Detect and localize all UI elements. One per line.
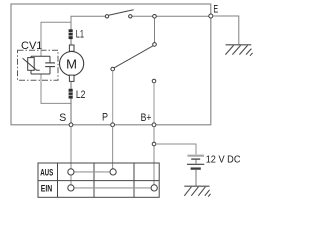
terminal B+ xyxy=(152,123,156,127)
node on top rail xyxy=(153,14,157,18)
battery G1 cell link xyxy=(195,160,197,164)
choke L2 xyxy=(68,89,73,99)
wire: motor branch vertical (L1 to motor) xyxy=(70,39,72,45)
svg-text:B+: B+ xyxy=(141,112,152,124)
switch S1 right contact xyxy=(129,15,132,18)
motor M1 xyxy=(60,52,84,76)
terminal P xyxy=(111,123,115,127)
wire: S drop to switch table xyxy=(70,127,72,169)
battery G1 12V plate 1 (long, light) xyxy=(188,155,205,157)
table contact AUS-1 xyxy=(68,169,74,175)
wire: B+ drop to junction xyxy=(153,127,155,143)
wire: motor to L2 xyxy=(70,81,72,89)
battery G1 plate 4 (short, thick) xyxy=(191,167,201,169)
motor M1 bottom brush xyxy=(69,75,74,81)
varistor R1 body xyxy=(28,58,35,71)
switch table frame xyxy=(38,163,159,197)
wire: CV1 top lead to motor branch xyxy=(41,22,71,56)
enclosure box (machine housing) xyxy=(11,4,211,125)
changeover switch B-side open contact xyxy=(152,79,156,83)
svg-text:L1: L1 xyxy=(76,29,84,41)
changeover switch blade xyxy=(114,46,153,68)
varistor R1 diagonal stroke xyxy=(23,58,40,70)
wire: top rail from motor branch corner to switch xyxy=(71,16,105,29)
wire: drop from top rail to changeover pivot xyxy=(154,18,156,43)
table contact EIN-3 xyxy=(151,185,157,191)
wire: switch to node to E terminal xyxy=(132,15,209,17)
switch S1 blade xyxy=(109,10,134,15)
CV1 inner top rail xyxy=(31,55,50,57)
wire: AUS row bridge 1-2 xyxy=(71,171,113,173)
varistor R1 leads xyxy=(30,56,32,58)
svg-text:P: P xyxy=(102,111,108,123)
wire: P-side contact down to terminal P xyxy=(112,71,114,124)
table contact EIN-1 xyxy=(68,185,74,191)
wire: CV1 bottom lead to motor branch xyxy=(41,74,71,103)
wire: EIN row bridge 1-3 xyxy=(71,187,154,189)
capacitor C1 plates xyxy=(45,62,55,64)
wire: battery to earth xyxy=(195,170,197,186)
svg-text:EIN: EIN xyxy=(41,184,52,194)
svg-text:S: S xyxy=(59,112,66,124)
terminal S xyxy=(69,123,73,127)
terminal E xyxy=(209,14,213,18)
wire: B+ junction down to switch table xyxy=(153,146,155,186)
changeover switch P-side contact xyxy=(111,67,115,71)
earth symbol at battery xyxy=(184,186,210,196)
CV1 inner bottom rail xyxy=(31,73,50,75)
svg-text:12 V DC: 12 V DC xyxy=(206,154,241,166)
svg-text:L2: L2 xyxy=(76,89,86,101)
wire: junction to battery xyxy=(156,144,196,154)
switch S1 left contact xyxy=(105,15,108,18)
battery G1 plate 2 (short) xyxy=(191,158,200,160)
node: B+ battery junction xyxy=(152,142,156,146)
table contact AUS-2 xyxy=(110,169,116,175)
motor M1 top brush xyxy=(69,45,74,51)
capacitor C1 stubs xyxy=(49,56,51,63)
suppressor CV1 dash-dot box xyxy=(18,50,59,80)
svg-text:E: E xyxy=(213,4,218,16)
wire: L2 down to terminal S xyxy=(70,99,72,124)
changeover switch pivot contact xyxy=(153,43,157,47)
earth symbol at E xyxy=(225,45,252,56)
wire: B-side contact down to terminal B+ xyxy=(153,83,155,124)
battery G1 plate 3 (long) xyxy=(187,163,204,165)
choke L1 xyxy=(68,29,73,39)
wire: P drop to switch table xyxy=(112,127,114,170)
wire: E to earth xyxy=(213,16,239,44)
svg-text:M: M xyxy=(66,56,77,71)
wire: S link between table contacts xyxy=(70,174,72,186)
svg-text:AUS: AUS xyxy=(40,168,53,178)
